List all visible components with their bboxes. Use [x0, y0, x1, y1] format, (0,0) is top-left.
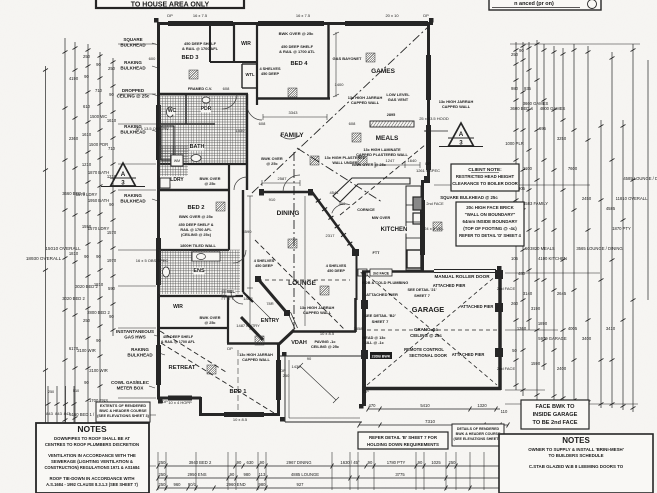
hatch marker 2: [288, 88, 297, 97]
room label PDR: [201, 106, 212, 113]
svg-text:MW OVER: MW OVER: [372, 216, 391, 220]
svg-text:& RAIL @ 1700 ATL: & RAIL @ 1700 ATL: [279, 49, 315, 54]
entry pier A2: [284, 310, 290, 316]
wall wtl closet: [242, 64, 258, 88]
notes box bottom-right: [499, 434, 653, 493]
dp square 1: [154, 18, 159, 23]
refer detail B box: [358, 432, 448, 449]
svg-text:450 DEEP: 450 DEEP: [327, 269, 345, 273]
outer wall left lintels: [156, 105, 161, 385]
room label RETREAT: [169, 364, 196, 371]
svg-text:4541: 4541: [330, 190, 340, 195]
wall bed2 right: [228, 164, 230, 250]
outer wall right kitchen: [421, 180, 424, 272]
svg-text:10 x 8.5: 10 x 8.5: [233, 417, 248, 422]
svg-text:1320: 1320: [477, 403, 487, 408]
svg-text:4885 LOUNGE: 4885 LOUNGE: [291, 472, 319, 477]
svg-text:1000 PLR: 1000 PLR: [505, 141, 524, 146]
dp square 5: [280, 417, 285, 422]
svg-text:REMOTE CONTROL: REMOTE CONTROL: [404, 347, 444, 352]
svg-text:LOUNGE: LOUNGE: [288, 280, 316, 287]
svg-text:3: 3: [121, 180, 125, 187]
svg-text:BULKHEAD: BULKHEAD: [127, 353, 153, 358]
svg-text:960: 960: [174, 482, 182, 487]
dash-dot vertical dining-lounge: [293, 152, 295, 331]
tile hatch ldry: [160, 146, 188, 176]
svg-text:BED 1: BED 1: [229, 389, 247, 395]
dashed diagonal meals: [340, 145, 425, 215]
svg-text:NOTES: NOTES: [562, 436, 590, 445]
room label VDAH: [291, 340, 307, 347]
bath tub: [161, 126, 174, 160]
garage sectional door note: [404, 347, 447, 358]
svg-text:78R: 78R: [266, 301, 273, 306]
svg-text:1610: 1610: [82, 132, 92, 137]
wall bed3-wir: [233, 22, 235, 62]
svg-text:105: 105: [511, 256, 519, 261]
svg-text:FTT: FTT: [373, 251, 381, 255]
svg-text:113: 113: [259, 472, 266, 477]
dashed diagonal games 1: [252, 27, 428, 193]
left margin annotations: [111, 37, 165, 391]
svg-text:2317: 2317: [326, 233, 336, 238]
svg-text:GRANO -1c: GRANO -1c: [414, 327, 438, 332]
wall dining top: [262, 191, 312, 193]
svg-text:SECTIONAL DOOR: SECTIONAL DOOR: [409, 353, 447, 358]
svg-text:CONSTRUCTION) REGULATIONS 1971: CONSTRUCTION) REGULATIONS 1971 & AS1684: [44, 465, 140, 470]
note text 23: [372, 216, 391, 220]
bed1 top wall: [227, 342, 280, 345]
bed1 chamfer wall: [278, 330, 295, 346]
dp square 7: [282, 352, 287, 357]
svg-text:10 x 4 HOPP: 10 x 4 HOPP: [168, 400, 192, 405]
wall kitchen west: [356, 250, 358, 300]
svg-text:7600: 7600: [568, 166, 578, 171]
svg-text:3140: 3140: [523, 291, 533, 296]
svg-text:1025: 1025: [431, 460, 441, 465]
svg-text:1100: 1100: [523, 166, 533, 171]
cabinet tick bars on diagonal: [316, 199, 353, 246]
svg-text:GARAGE: GARAGE: [412, 305, 445, 314]
svg-text:16 x 13.5 OBS PIV: 16 x 13.5 OBS PIV: [135, 126, 169, 131]
wall lounge-vdah: [293, 330, 356, 333]
dp square 4: [158, 399, 163, 404]
svg-text:ENTRY: ENTRY: [261, 318, 280, 324]
svg-text:250: 250: [159, 472, 167, 477]
svg-text:250: 250: [159, 482, 167, 487]
svg-text:BWK OVER @ 25c: BWK OVER @ 25c: [279, 31, 315, 36]
svg-text:EXTENTS OF RENDERED: EXTENTS OF RENDERED: [100, 404, 146, 408]
svg-text:630: 630: [247, 460, 255, 465]
svg-text:RAKING: RAKING: [124, 193, 142, 198]
svg-text:250: 250: [48, 390, 54, 394]
svg-text:2nd FACE: 2nd FACE: [497, 286, 516, 291]
svg-text:2nd FACE: 2nd FACE: [497, 366, 516, 371]
note text 21: [300, 305, 335, 315]
svg-text:260: 260: [511, 301, 519, 306]
note text 10: [348, 95, 383, 105]
svg-text:3250: 3250: [557, 136, 567, 141]
garage right wall: [498, 270, 502, 390]
room label ENTRY: [261, 318, 280, 325]
svg-text:710: 710: [108, 146, 116, 151]
svg-text:"WALL ON BOUNDARY": "WALL ON BOUNDARY": [465, 212, 516, 217]
svg-text:3775: 3775: [395, 472, 405, 477]
garage head sill note: [363, 336, 386, 345]
svg-text:3400: 3400: [582, 336, 592, 341]
svg-text:2100 WIR: 2100 WIR: [89, 368, 108, 373]
svg-text:DP: DP: [423, 13, 429, 18]
hatch marker 1: [189, 70, 198, 79]
hatch marker 3: [366, 53, 375, 62]
wall wir-bed4: [256, 22, 258, 105]
garage roller door opening: [434, 270, 496, 273]
notes box bottom-left: [36, 423, 149, 493]
svg-text:CEILING @ 25c: CEILING @ 25c: [410, 333, 442, 338]
svg-text:250: 250: [159, 460, 167, 465]
svg-text:2450: 2450: [582, 196, 592, 201]
hatch marker 11: [433, 222, 442, 231]
svg-text:20 x 10: 20 x 10: [385, 13, 399, 18]
outer wall top: [157, 22, 433, 25]
svg-text:600: 600: [149, 56, 156, 61]
svg-text:BED 3: BED 3: [181, 55, 199, 61]
extents of rendered bwk box left: [96, 402, 150, 422]
svg-text:1870 PTY: 1870 PTY: [612, 226, 631, 231]
svg-text:GAS BAYONET: GAS BAYONET: [333, 56, 363, 61]
title box top-right: [489, 0, 601, 10]
bed1 right wall: [277, 344, 280, 415]
svg-text:4190: 4190: [69, 76, 79, 81]
svg-text:SEE DETAIL '21': SEE DETAIL '21': [407, 288, 436, 292]
svg-text:& RAIL @ 1700 AFL: & RAIL @ 1700 AFL: [161, 340, 196, 344]
svg-text:DP: DP: [363, 389, 369, 394]
outer wall right games: [427, 22, 430, 182]
svg-text:608: 608: [259, 121, 266, 126]
svg-text:480: 480: [518, 271, 526, 276]
note text 8: [325, 156, 366, 165]
svg-text:843: 843: [55, 411, 62, 416]
garage ceiling note: [410, 327, 442, 338]
svg-text:3190: 3190: [531, 306, 541, 311]
dining wall pier left: [259, 189, 264, 196]
svg-text:1247: 1247: [386, 158, 396, 163]
svg-text:ATTACHED PIER: ATTACHED PIER: [452, 352, 485, 357]
room label MEALS: [376, 135, 399, 143]
wall ldry bottom / bed2 top: [158, 189, 230, 191]
svg-text:4 SHELVES: 4 SHELVES: [326, 264, 347, 268]
garage 3rd face label: [370, 269, 392, 276]
svg-text:608: 608: [223, 86, 230, 91]
svg-text:3343: 3343: [289, 110, 299, 115]
svg-text:BWK OVER @ 25c: BWK OVER @ 25c: [352, 162, 387, 167]
svg-text:90: 90: [96, 62, 101, 67]
svg-text:ATTACHED PIER: ATTACHED PIER: [366, 292, 398, 297]
svg-text:VDAH: VDAH: [291, 340, 307, 346]
svg-text:2967 DINING: 2967 DINING: [286, 460, 311, 465]
svg-text:SILL @ -1c: SILL @ -1c: [364, 341, 383, 345]
svg-text:1640: 1640: [408, 158, 418, 163]
svg-text:CAPPED WALL: CAPPED WALL: [303, 310, 332, 315]
tile hatch entry wil: [222, 290, 234, 300]
svg-text:FACE BWK TO: FACE BWK TO: [535, 404, 575, 410]
note text 22: [311, 339, 340, 349]
svg-text:DP: DP: [162, 399, 168, 404]
svg-text:SHEET 7: SHEET 7: [372, 319, 389, 324]
svg-text:1858: 1858: [354, 326, 364, 331]
svg-text:ATTACHED PIER: ATTACHED PIER: [461, 304, 494, 309]
svg-text:TO BUILDERS SCHEDULE: TO BUILDERS SCHEDULE: [548, 453, 603, 458]
extents of bwk box right: [452, 424, 504, 446]
svg-text:935: 935: [524, 86, 532, 91]
wall kitchen bench top: [333, 178, 410, 202]
svg-text:4585: 4585: [606, 206, 616, 211]
svg-text:HOB & COLD PLUMBING: HOB & COLD PLUMBING: [362, 280, 408, 285]
wall bed4 bottom: [257, 97, 330, 99]
dim line 2587: [262, 180, 300, 186]
bottom-left 843 dims: [46, 386, 80, 428]
svg-text:2nd FACE: 2nd FACE: [426, 202, 444, 206]
garage pier top-right: [495, 270, 503, 279]
bath basin: [191, 155, 201, 162]
wall wir bottom: [210, 61, 257, 63]
svg-text:250: 250: [511, 52, 519, 57]
svg-text:(TOP OF FOOTING @ -4c): (TOP OF FOOTING @ -4c): [463, 226, 517, 231]
svg-text:CEILING @ 25c: CEILING @ 25c: [311, 344, 340, 349]
dim line porch diag: [297, 363, 339, 403]
retreat-bed1 step wall: [199, 397, 202, 415]
svg-text:710: 710: [95, 88, 103, 93]
svg-text:2100 WIR: 2100 WIR: [77, 348, 96, 353]
svg-text:HOLDING DOWN REQUIREMENTS: HOLDING DOWN REQUIREMENTS: [367, 442, 439, 447]
svg-text:2645: 2645: [557, 291, 567, 296]
dim line dining vertical: [304, 196, 306, 326]
wall wc-bath: [158, 123, 215, 125]
svg-text:2800 BED 2: 2800 BED 2: [87, 310, 110, 315]
ens wc pan: [163, 267, 170, 277]
svg-text:10 x 8.5: 10 x 8.5: [320, 331, 335, 336]
svg-text:@ 25c: @ 25c: [204, 321, 215, 325]
svg-text:DETAILS OF RENDERED: DETAILS OF RENDERED: [457, 427, 500, 431]
note text 11: [387, 113, 395, 117]
svg-text:590: 590: [108, 286, 116, 291]
svg-text:25 x 13.5 HOOD: 25 x 13.5 HOOD: [419, 116, 449, 121]
note text 25: [239, 353, 273, 362]
svg-text:980: 980: [244, 472, 252, 477]
svg-text:RAIL @ 1700 AFL: RAIL @ 1700 AFL: [180, 228, 212, 232]
detail marker A/3 right: [424, 123, 483, 147]
svg-text:90: 90: [84, 74, 89, 79]
svg-text:BATH: BATH: [190, 144, 205, 150]
wall bed3 robe: [209, 22, 211, 62]
svg-text:CEILING @ 25c: CEILING @ 25c: [117, 94, 150, 99]
hatch marker 5: [352, 133, 361, 142]
svg-text:@ 25c: @ 25c: [266, 161, 278, 166]
svg-text:CAPPED WALL: CAPPED WALL: [442, 104, 471, 109]
svg-text:BULKHEAD: BULKHEAD: [120, 66, 146, 71]
svg-text:LDRY: LDRY: [170, 177, 184, 183]
svg-text:C.STAB GLAZED W.B 8 LEEMING DO: C.STAB GLAZED W.B 8 LEEMING DOORS TO: [529, 464, 624, 469]
svg-text:5410: 5410: [420, 403, 430, 408]
svg-text:GAMES: GAMES: [371, 68, 396, 75]
lounge dashed bulkhead line: [258, 279, 350, 281]
room label BED 2: [186, 204, 205, 211]
svg-text:4005: 4005: [568, 326, 578, 331]
note text 15: [179, 214, 214, 219]
dim line hall vertical: [247, 196, 253, 330]
dim line 3343: [263, 114, 327, 120]
boiler box 1: [413, 197, 422, 210]
svg-text:(SEE ELEVATIONS SHEET 3): (SEE ELEVATIONS SHEET 3): [454, 437, 504, 441]
note text 24: [357, 208, 375, 212]
svg-text:7310: 7310: [425, 419, 436, 424]
room label LOUNGE: [288, 280, 316, 288]
dashed diagonal retreat 2: [160, 331, 226, 372]
ldry wm box: [171, 155, 183, 166]
room label BED 3: [180, 54, 199, 61]
svg-text:250: 250: [283, 373, 290, 378]
svg-text:3600 BED 4: 3600 BED 4: [510, 106, 533, 111]
dashed diagonal lounge: [255, 240, 345, 330]
svg-text:980: 980: [259, 482, 267, 487]
svg-text:980: 980: [511, 86, 519, 91]
svg-text:608: 608: [349, 121, 356, 126]
svg-text:910: 910: [269, 197, 276, 202]
svg-text:INSTANTANEOUS: INSTANTANEOUS: [116, 329, 154, 334]
svg-text:4583 FAMILY: 4583 FAMILY: [523, 201, 548, 206]
svg-text:SEE DETAIL 'B2': SEE DETAIL 'B2': [364, 313, 395, 318]
garage pier right-1: [495, 303, 503, 312]
svg-text:DP: DP: [425, 161, 431, 166]
svg-text:SEWERAGE (LIGHTING VENTILATION: SEWERAGE (LIGHTING VENTILATION &: [51, 459, 133, 464]
svg-text:1210: 1210: [82, 162, 92, 167]
wall lounge right vertical: [354, 298, 357, 332]
svg-text:4 SHELVES: 4 SHELVES: [254, 259, 275, 263]
garage bottom wall: [362, 387, 501, 391]
svg-text:BWK OVER: BWK OVER: [200, 316, 221, 320]
svg-text:1810: 1810: [94, 282, 104, 287]
svg-text:SQUARE BULKHEAD @ 25c: SQUARE BULKHEAD @ 25c: [440, 195, 498, 200]
note text 1: [182, 41, 219, 51]
svg-text:ENS: ENS: [193, 268, 205, 274]
svg-text:20c HIGH FACE BRICK: 20c HIGH FACE BRICK: [466, 205, 514, 210]
svg-text:250: 250: [108, 66, 116, 71]
svg-text:COWL GAS/ELEC: COWL GAS/ELEC: [111, 380, 150, 385]
svg-text:A: A: [459, 131, 464, 138]
svg-text:90: 90: [84, 254, 89, 259]
garage dashed mid: [367, 329, 497, 331]
svg-text:4585 LOUNGE / DINING: 4585 LOUNGE / DINING: [623, 176, 657, 181]
svg-text:3820 MEALS: 3820 MEALS: [530, 246, 555, 251]
hatch marker 4: [310, 156, 319, 165]
svg-text:1780 PTY: 1780 PTY: [387, 460, 406, 465]
svg-text:ATTACHED PIER: ATTACHED PIER: [433, 283, 466, 288]
svg-text:BED 2: BED 2: [187, 205, 204, 211]
outer wall right games lintels: [426, 55, 431, 170]
svg-text:16 x 7.5: 16 x 7.5: [296, 13, 311, 18]
svg-text:ROOF TIE-DOWN IN ACCORDANCE WI: ROOF TIE-DOWN IN ACCORDANCE WITH: [49, 476, 134, 481]
svg-text:GAS HWS: GAS HWS: [124, 335, 146, 340]
svg-text:450 DEEP SHELF: 450 DEEP SHELF: [163, 335, 194, 339]
svg-text:1530: 1530: [236, 128, 246, 133]
svg-text:3590: 3590: [243, 229, 253, 234]
svg-text:90: 90: [109, 314, 114, 319]
wall on boundary note box: [456, 202, 524, 246]
hatch marker 7: [288, 239, 297, 248]
dimension block right: [434, 40, 657, 412]
note text 9: [439, 99, 474, 109]
svg-text:510: 510: [73, 389, 79, 393]
svg-text:90: 90: [96, 254, 101, 259]
svg-text:4800 GAMES: 4800 GAMES: [540, 106, 566, 111]
svg-text:BWC & HEADER COURSE: BWC & HEADER COURSE: [99, 409, 147, 413]
hatch marker 8: [320, 286, 329, 295]
garage pier right-2: [495, 348, 503, 357]
dim line games vertical: [333, 32, 339, 97]
svg-text:@ 25c: @ 25c: [204, 182, 215, 186]
svg-text:50: 50: [512, 348, 517, 353]
garage top wall segment: [362, 270, 434, 273]
note text 20: [200, 177, 221, 186]
svg-text:1570 LDRY: 1570 LDRY: [76, 192, 98, 197]
svg-text:KITCHEN: KITCHEN: [381, 227, 408, 233]
title box top-left TO HOUSE AREA ONLY: [96, 0, 244, 9]
svg-text:PDR: PDR: [201, 106, 212, 112]
wall bath bottom: [158, 163, 247, 165]
room label WIR: [241, 41, 251, 48]
note text 13: [261, 156, 283, 166]
wall bed2 bottom / ens top: [158, 249, 229, 251]
wall wir2-ens right: [227, 296, 229, 343]
hatch marker 6: [216, 202, 225, 211]
room label WTL: [245, 72, 255, 79]
svg-text:BULKHEAD: BULKHEAD: [120, 199, 146, 204]
svg-text:5970 GARAGE: 5970 GARAGE: [538, 336, 567, 341]
ens vanity: [192, 252, 220, 261]
room label WIL: [227, 289, 236, 296]
garage pier left-1: [361, 300, 368, 309]
garage diagonal dashed 2: [367, 275, 497, 385]
svg-text:843: 843: [46, 411, 53, 416]
svg-text:90: 90: [519, 48, 524, 53]
svg-text:WIR: WIR: [241, 41, 251, 47]
svg-text:(SEE ELEVATIONS SHEET 3): (SEE ELEVATIONS SHEET 3): [97, 414, 149, 418]
svg-text:90: 90: [307, 356, 312, 361]
note text 5: [333, 56, 363, 61]
note text 18: [254, 259, 275, 268]
wc pan: [167, 107, 174, 117]
svg-text:1950 BATH: 1950 BATH: [88, 198, 109, 203]
wall bed4-games: [327, 22, 329, 99]
svg-text:2960 END: 2960 END: [226, 482, 245, 487]
svg-text:1800H TILED WALL: 1800H TILED WALL: [180, 243, 217, 248]
bed1 bottom window lintel: [224, 412, 264, 417]
wall kitchen pantry pier: [352, 249, 359, 256]
dimension block left: [26, 38, 156, 474]
wall entry diagonal B: [241, 317, 263, 340]
pdr basin: [202, 97, 210, 103]
face bwk box: [521, 400, 589, 429]
svg-text:18930 OVERALL: 18930 OVERALL: [26, 256, 62, 261]
svg-text:2400: 2400: [557, 366, 567, 371]
note text 6: [386, 92, 410, 102]
svg-text:BULKHEAD: BULKHEAD: [120, 43, 146, 48]
svg-text:DINING: DINING: [277, 210, 300, 217]
svg-text:13c HIGH LAMINATE: 13c HIGH LAMINATE: [363, 148, 401, 152]
svg-text:RAKING: RAKING: [131, 347, 149, 352]
svg-text:90: 90: [418, 460, 423, 465]
svg-text:90: 90: [84, 380, 89, 385]
